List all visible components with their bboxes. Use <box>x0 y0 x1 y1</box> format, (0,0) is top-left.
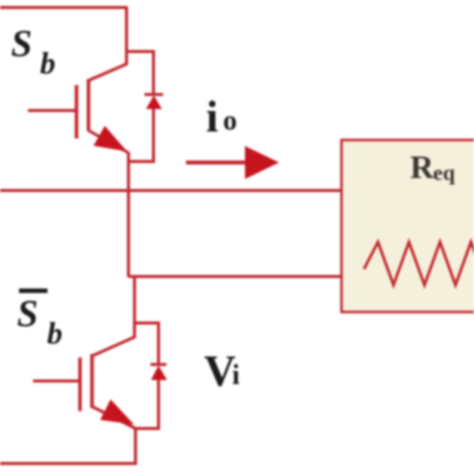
svg-text:R: R <box>410 150 435 186</box>
wire lower IGBT collector drop <box>92 277 135 357</box>
svg-text:b: b <box>47 316 63 351</box>
arrow current io <box>186 146 279 179</box>
wire top rail to upper IGBT collector <box>0 8 127 81</box>
wire diode lower lead upper IGBT <box>129 108 154 162</box>
wire middle output rail <box>0 189 342 192</box>
label Sb-bar <box>17 289 63 351</box>
svg-text:S: S <box>11 23 32 65</box>
diode D1 <box>145 95 164 110</box>
wire diode branch lower <box>135 323 159 364</box>
svg-text:b: b <box>40 46 56 81</box>
transistor Q1 upper IGBT <box>28 79 128 153</box>
svg-text:eq: eq <box>433 160 456 185</box>
svg-text:S: S <box>17 293 38 335</box>
svg-text:i: i <box>232 360 240 391</box>
wire lower return line <box>129 275 342 278</box>
arrow emitter Q2 <box>100 399 134 424</box>
transistor Q2 lower IGBT <box>33 354 136 429</box>
diode D2 <box>151 365 168 381</box>
wire diode lower lead lower IGBT <box>136 379 159 429</box>
resistor load box Req <box>342 140 474 312</box>
wire bottom emitter to bottom rail <box>0 428 136 464</box>
label Vi <box>204 347 240 396</box>
arrow emitter Q1 <box>94 126 128 152</box>
label Sb <box>11 23 56 81</box>
svg-text:i: i <box>206 93 218 142</box>
label Req <box>410 150 456 186</box>
svg-text:o: o <box>223 106 237 137</box>
resistor zigzag <box>364 242 474 285</box>
label io <box>206 93 237 142</box>
wire emitter vertical rail <box>127 152 130 277</box>
wire diode branch upper <box>127 52 154 96</box>
